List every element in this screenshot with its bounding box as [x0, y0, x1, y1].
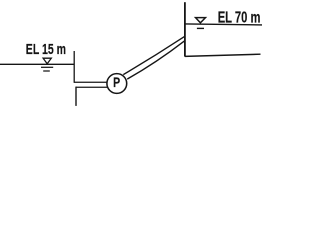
svg-text:EL 70 m: EL 70 m [218, 10, 261, 27]
svg-text:EL 15 m: EL 15 m [26, 42, 66, 58]
svg-text:P: P [113, 74, 120, 90]
